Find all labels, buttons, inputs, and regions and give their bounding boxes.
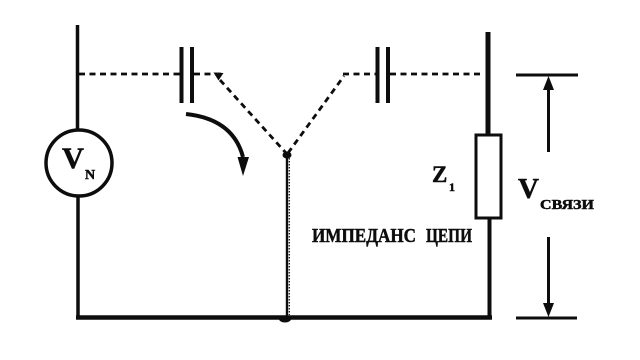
svg-text:N: N — [85, 168, 95, 183]
svg-text:1: 1 — [449, 180, 455, 194]
svg-text:ЦЕПИ: ЦЕПИ — [426, 225, 472, 247]
svg-text:V: V — [62, 142, 84, 175]
svg-text:СВЯЗИ: СВЯЗИ — [540, 198, 594, 213]
svg-text:ИМПЕДАНС: ИМПЕДАНС — [312, 225, 416, 247]
svg-text:V: V — [518, 174, 539, 205]
svg-text:Z: Z — [432, 162, 447, 187]
